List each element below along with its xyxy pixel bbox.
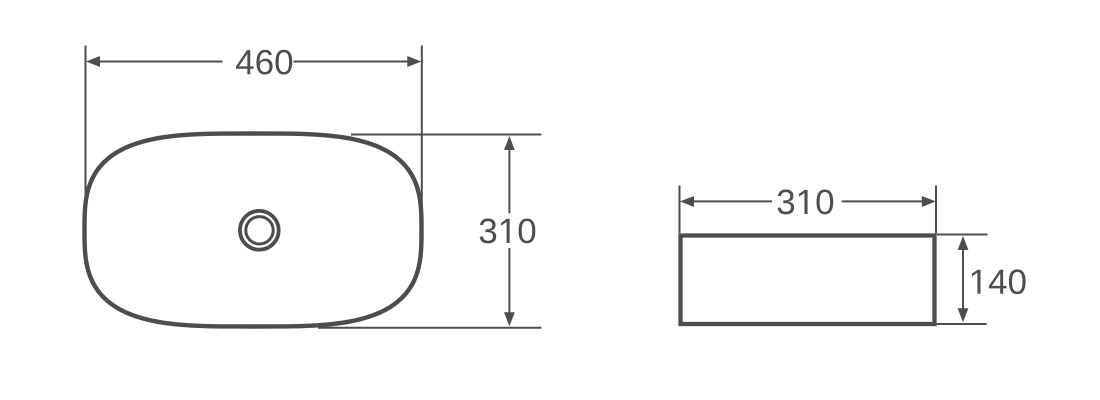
drain outer circle bbox=[240, 211, 279, 250]
drain inner circle bbox=[246, 217, 273, 244]
height dim label 310 bbox=[480, 219, 536, 244]
side height dim label 140 bbox=[972, 269, 1026, 294]
side width dim left arrow bbox=[680, 196, 694, 207]
side height dim top extension line bbox=[937, 234, 988, 236]
side width dim right arrow bbox=[922, 196, 936, 207]
side width dim line right segment bbox=[842, 200, 924, 202]
height dim top arrow bbox=[504, 136, 515, 150]
basin top view outline bbox=[85, 134, 422, 327]
side height dim line bbox=[962, 249, 964, 309]
side height dim bottom arrow bbox=[958, 308, 969, 322]
side height dim top arrow bbox=[958, 236, 969, 250]
side width dim right extension line bbox=[935, 186, 937, 234]
height dim top extension line bbox=[351, 134, 541, 136]
side view body rectangle bbox=[681, 236, 935, 325]
width dim line left segment bbox=[98, 61, 223, 63]
width dim label 460 bbox=[236, 50, 292, 75]
width dim left arrow bbox=[86, 56, 100, 67]
height dim line top segment bbox=[508, 149, 510, 213]
width dim line right segment bbox=[294, 61, 410, 63]
side height dim bottom extension line bbox=[937, 323, 987, 325]
height dim line bottom segment bbox=[508, 248, 510, 313]
side width dim line left segment bbox=[693, 200, 772, 202]
side width dim left extension line bbox=[679, 186, 681, 234]
height dim bottom extension line bbox=[318, 327, 541, 329]
width dim right extension line bbox=[421, 46, 423, 231]
height dim bottom arrow bbox=[504, 312, 515, 326]
side width dim label 310 bbox=[778, 190, 834, 215]
width dim right arrow bbox=[407, 56, 421, 67]
width dim left extension line bbox=[85, 46, 87, 219]
